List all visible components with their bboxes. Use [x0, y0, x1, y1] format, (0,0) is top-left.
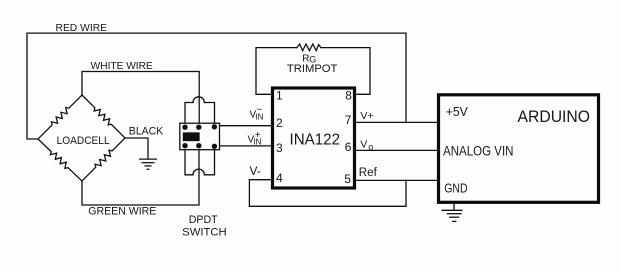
svg-text:LOADCELL: LOADCELL — [57, 135, 110, 147]
DPDT switch contact dots — [182, 124, 217, 149]
resistor bridge arm bottom-left — [38, 139, 82, 181]
wire pin2 (switch to VIN-) — [214, 125, 272, 127]
resistor bridge arm bottom-right — [82, 138, 125, 181]
wire WHITE WIRE (bridge top to switch middle top) — [82, 72, 199, 128]
svg-text:WHITE WIRE: WHITE WIRE — [91, 61, 153, 72]
svg-text:+5V: +5V — [446, 104, 468, 119]
svg-text:8: 8 — [345, 89, 352, 103]
svg-text:V-: V- — [250, 164, 261, 178]
svg-text:+: + — [255, 130, 261, 141]
wire pin5 Ref to arduino GND — [355, 179, 438, 181]
svg-text:TRIMPOT: TRIMPOT — [287, 63, 338, 75]
wire pin3 (switch to VIN+) — [214, 145, 272, 147]
svg-text:SWITCH: SWITCH — [182, 226, 227, 238]
svg-text:1: 1 — [276, 89, 283, 103]
svg-text:RED WIRE: RED WIRE — [56, 23, 108, 34]
DPDT switch position bar — [184, 133, 200, 141]
svg-text:2: 2 — [276, 116, 283, 130]
svg-text:INA122: INA122 — [290, 131, 341, 148]
wire BLACK (bridge right vertex to ground) — [125, 138, 148, 159]
svg-text:GREEN WIRE: GREEN WIRE — [88, 206, 156, 218]
trimpot RG loop wire (pin1 to pin8) — [256, 48, 297, 95]
svg-text:4: 4 — [276, 171, 283, 185]
resistor bridge arm top-right — [82, 95, 125, 138]
svg-text:7: 7 — [345, 113, 352, 127]
svg-text:o: o — [368, 142, 373, 152]
svg-text:V: V — [360, 139, 367, 151]
svg-text:−: − — [257, 105, 263, 116]
wire pin4 V- to ground net — [249, 180, 406, 207]
op-amp U1 INA122 body — [273, 88, 355, 188]
ground symbol at loadcell black wire — [140, 159, 157, 169]
ground symbol below arduino — [442, 204, 462, 221]
svg-text:DPDT: DPDT — [189, 214, 218, 226]
wire GREEN WIRE (bridge bottom to switch middle bottom) — [82, 146, 199, 205]
svg-text:V+: V+ — [360, 110, 373, 122]
resistor RG trimpot zigzag — [297, 44, 321, 51]
svg-text:5: 5 — [344, 172, 351, 186]
DPDT switch body — [180, 123, 220, 150]
wire pin6 Vo to arduino ANALOG VIN — [355, 149, 438, 151]
svg-text:ANALOG VIN: ANALOG VIN — [443, 144, 514, 159]
wire RED WIRE (loadcell left vertex to +5V net) — [27, 33, 406, 139]
svg-text:3: 3 — [276, 141, 283, 155]
svg-text:ARDUINO: ARDUINO — [518, 108, 591, 126]
DPDT switch outer frame with crossover bumps — [193, 97, 204, 175]
svg-text:GND: GND — [444, 180, 468, 195]
arduino body — [439, 95, 599, 203]
svg-text:BLACK: BLACK — [129, 126, 164, 138]
svg-text:6: 6 — [345, 140, 352, 154]
wire pin7 V+ to arduino +5V — [355, 121, 438, 123]
svg-text:Ref: Ref — [359, 167, 378, 179]
resistor bridge arm top-left — [38, 95, 82, 139]
